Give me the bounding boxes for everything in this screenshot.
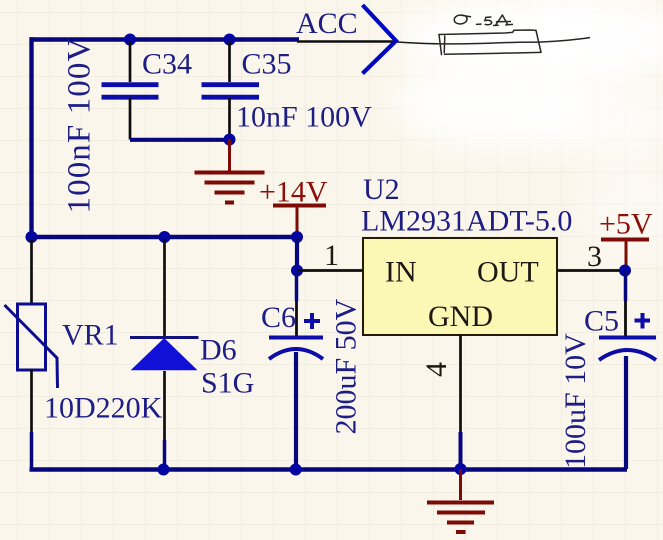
op-amp U2 regulator body [363,238,557,335]
pin 3 wire from U2 to +5V node [557,269,625,272]
fuse value 0.5A (handwritten) [454,15,512,26]
svg-text:100nF 100V: 100nF 100V [62,37,98,214]
diode D6 [130,239,199,469]
wire: bottom ground rail [30,467,628,472]
svg-text:GND: GND [428,300,493,333]
node: junction VR1... D6 bottom [158,464,170,476]
ground symbol under C35 [195,140,265,203]
power symbol +14V [273,206,326,240]
varistor VR1 [5,239,58,469]
svg-text:S1G: S1G [201,367,254,400]
wire: thin lead from arrow to fuse [397,42,437,44]
svg-text:D6: D6 [200,334,237,367]
ground symbol bottom [427,469,494,532]
node: junction pin3 / +5V / C5 [619,265,631,277]
svg-text:VR1: VR1 [62,319,119,352]
svg-text:C35: C35 [242,48,292,81]
svg-text:200uF 50V: 200uF 50V [330,298,363,434]
svg-text:+14V: +14V [259,176,328,209]
svg-text:100uF 10V: 100uF 10V [559,333,592,469]
fuse (hand-drawn) body [437,30,590,55]
svg-text:1: 1 [324,239,339,272]
svg-text:ACC: ACC [296,7,358,40]
pin 1 wire to U2 [297,269,363,272]
capacitor C6 (polarized) [269,272,323,469]
node: junction +14V symbol / rail [291,231,303,243]
node: junction U2 GND bottom [455,463,467,475]
svg-text:10D220K: 10D220K [44,392,163,425]
port arrow ACC [363,5,397,74]
wire: left vertical from top rail to +14V rail [29,37,33,239]
wire: short drop to pin1 node [295,237,299,271]
node: junction D6 / +14V rail [159,231,171,243]
pin 4 wire from U2 GND down [459,335,462,432]
capacitor C35 [202,42,260,140]
svg-text:3: 3 [587,240,602,273]
svg-text:C6: C6 [261,301,296,334]
wire: +14V rail [30,235,298,239]
svg-text:U2: U2 [363,173,400,206]
wire: C34 bottom to C35 bottom [130,138,230,142]
node: junction C6 bottom [290,464,302,476]
wire: black lead under ACC to arrow tip [297,40,396,43]
node: junction at C35 bottom [224,134,236,146]
svg-text:C34: C34 [142,48,192,81]
svg-text:+5V: +5V [599,208,653,241]
power symbol +5V [601,240,649,271]
capacitor C5 (polarized) [599,272,656,469]
svg-text:C5: C5 [584,305,619,338]
svg-text:OUT: OUT [477,256,539,289]
svg-text:IN: IN [385,256,417,289]
svg-text:10nF 100V: 10nF 100V [236,101,372,134]
node: junction left wire / +14V rail [26,231,38,243]
white smudge over fuse area [395,0,663,255]
node: junction pin1 / C6 [291,265,303,277]
node: junction of C34 with top rail [124,34,136,46]
wire: top rail from left corner to ACC port [30,37,300,41]
svg-text:LM2931ADT-5.0: LM2931ADT-5.0 [361,205,572,238]
node: junction of C35 with top rail [224,34,236,46]
capacitor C34 [102,42,159,140]
svg-text:4: 4 [420,362,453,377]
